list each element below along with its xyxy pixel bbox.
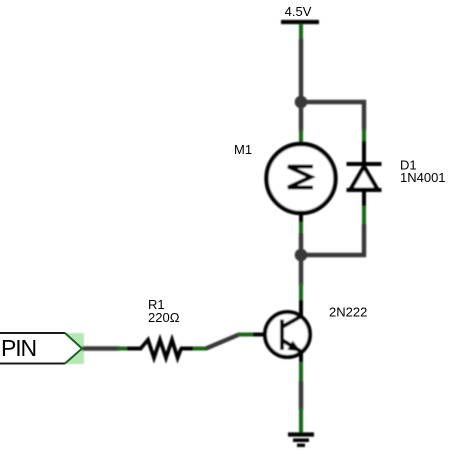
motor M1 body circle <box>267 144 336 213</box>
svg-text:4.5V: 4.5V <box>285 4 312 19</box>
wire motor bottom to node B <box>299 233 303 255</box>
power supply symbol bar <box>281 20 319 24</box>
pin: motor terminal 2 (black part) <box>299 212 303 223</box>
pin: power supply terminal (green) <box>299 24 303 40</box>
motor M1 rotated M glyph <box>288 167 313 188</box>
wire power supply to node A <box>299 39 303 103</box>
pin: diode cathode (green) <box>362 129 366 143</box>
svg-text:2N222: 2N222 <box>329 305 367 320</box>
net label PIN: box edges <box>0 333 65 364</box>
pin: resistor right (black part) <box>180 347 194 351</box>
net label PIN: tip chevron (green pin) <box>65 333 82 364</box>
wire node A to diode top (corner) <box>301 102 364 131</box>
ground symbol bar 2 <box>293 438 309 442</box>
diode D1 cathode bar <box>347 162 382 166</box>
pin: diode cathode (black part) <box>362 141 366 165</box>
pin: resistor right (green) <box>193 347 207 351</box>
pin: collector (green) <box>299 283 303 301</box>
pin: motor terminal 2 (green) <box>299 222 303 234</box>
wire resistor to base (diagonal) <box>206 335 239 349</box>
transistor Q1 body circle <box>265 312 310 357</box>
wire PIN to resistor <box>82 346 120 350</box>
pin: base (black part) <box>253 333 266 337</box>
pin: resistor left (black part) <box>127 347 142 351</box>
node A junction dot <box>295 96 308 109</box>
svg-text:1N4001: 1N4001 <box>400 170 446 185</box>
pin: collector (black part) <box>299 300 303 317</box>
transistor Q1 collector diagonal <box>282 316 302 327</box>
pin: motor terminal 1 (green) <box>299 130 303 144</box>
ground symbol bar 3 <box>297 444 305 447</box>
pin: emitter (green) <box>299 362 303 382</box>
ground symbol bar 1 <box>288 432 314 436</box>
transistor Q1 base bar <box>280 320 284 351</box>
net label PIN: flag body fill <box>0 333 82 364</box>
pin: emitter (black part) <box>299 351 303 364</box>
pin: base (green) <box>238 333 254 337</box>
svg-text:PIN: PIN <box>1 335 36 361</box>
pin: resistor left (green) <box>118 347 128 351</box>
svg-text:220Ω: 220Ω <box>148 310 180 325</box>
transistor Q1 emitter arrowhead <box>288 342 300 352</box>
wire node A to motor top <box>299 102 303 131</box>
wire node B to transistor collector <box>299 255 303 285</box>
diode D1 triangle <box>351 167 378 190</box>
wire emitter to ground <box>299 381 303 410</box>
svg-text:M1: M1 <box>234 142 252 157</box>
pin: diode anode (green) <box>362 206 366 225</box>
wire diode bottom to node B (corner) <box>301 224 364 255</box>
transistor Q1 emitter diagonal <box>282 340 301 352</box>
node B junction dot <box>295 249 308 262</box>
pin: ground (green) <box>299 408 303 434</box>
diode D1 anode bar <box>347 188 382 192</box>
resistor R1 zigzag <box>141 340 182 358</box>
net label PIN: green connection highlight <box>66 333 84 364</box>
pin: diode anode (black part) <box>362 191 366 208</box>
